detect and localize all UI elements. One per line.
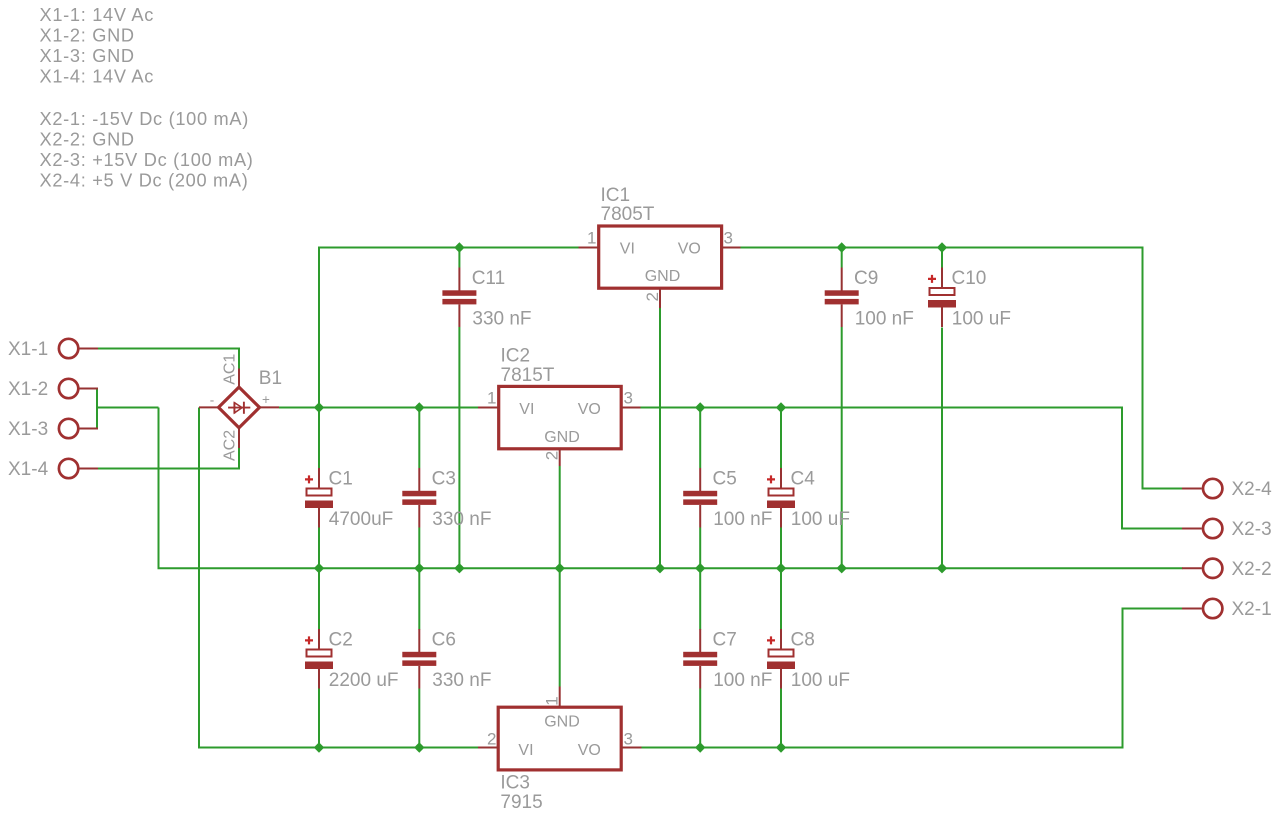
junction GND rail / C3-C6 column xyxy=(414,563,424,573)
capacitor C6 330 nF xyxy=(402,629,491,691)
svg-text:100 nF: 100 nF xyxy=(855,309,914,330)
svg-text:VO: VO xyxy=(678,241,701,258)
wire top rail left segment (raw DC to IC1 VI) xyxy=(318,247,579,249)
junction negative rail / C2 column xyxy=(314,742,324,752)
connector pin X2-1 xyxy=(1182,599,1272,620)
capacitor C10 100 uF (polarized) xyxy=(928,268,1011,330)
svg-text:X1-1: X1-1 xyxy=(8,339,48,360)
svg-text:IC3: IC3 xyxy=(500,772,530,793)
svg-text:X2-2: X2-2 xyxy=(1232,559,1272,580)
junction middle rail / C1 column xyxy=(314,402,324,412)
capacitor C4 100 uF (polarized) xyxy=(767,468,850,530)
wire C2 column bottom segment xyxy=(318,689,320,749)
wire X1-1 to bridge AC1 xyxy=(97,348,240,350)
svg-text:2200 uF: 2200 uF xyxy=(329,670,399,691)
svg-text:330 nF: 330 nF xyxy=(432,670,491,691)
svg-text:1: 1 xyxy=(487,389,496,408)
svg-text:-: - xyxy=(210,393,215,408)
svg-text:X2-3: +15V Dc (100 mA): X2-3: +15V Dc (100 mA) xyxy=(40,150,254,170)
svg-text:C8: C8 xyxy=(791,630,815,651)
svg-text:C10: C10 xyxy=(952,268,987,289)
capacitor C3 330 nF xyxy=(402,468,491,530)
svg-text:4700uF: 4700uF xyxy=(329,509,393,530)
svg-text:C5: C5 xyxy=(713,469,737,490)
svg-text:X1-2: GND: X1-2: GND xyxy=(40,26,135,46)
wire C9 column top segment xyxy=(841,247,843,268)
svg-text:X1-4: X1-4 xyxy=(8,459,49,480)
svg-text:AC2: AC2 xyxy=(222,430,239,461)
svg-text:3: 3 xyxy=(624,730,633,749)
wire bridge AC1 vertical drop xyxy=(238,348,240,370)
svg-text:X2-2: GND: X2-2: GND xyxy=(40,130,135,150)
svg-text:X2-4: X2-4 xyxy=(1232,479,1273,500)
connector pin X1-4 xyxy=(8,459,98,480)
svg-text:330 nF: 330 nF xyxy=(472,309,531,330)
svg-text:100 uF: 100 uF xyxy=(791,509,850,530)
svg-text:100 uF: 100 uF xyxy=(952,309,1011,330)
wire X2-4 feed vertical xyxy=(1142,247,1144,489)
capacitor C2 2200 uF (polarized) xyxy=(305,629,399,691)
junction GND rail / C10 column xyxy=(937,563,947,573)
svg-text:VO: VO xyxy=(578,401,601,418)
wire C1 column mid segment xyxy=(318,528,320,630)
svg-text:GND: GND xyxy=(544,713,580,730)
svg-text:7805T: 7805T xyxy=(601,204,655,225)
svg-text:C1: C1 xyxy=(329,469,353,490)
svg-text:C11: C11 xyxy=(472,268,505,289)
svg-text:X2-1: X2-1 xyxy=(1232,599,1272,620)
wire C4 column top segment xyxy=(780,407,782,469)
svg-text:+: + xyxy=(262,392,270,407)
wire C3 column top segment xyxy=(418,407,420,469)
wire GND feed vertical to GND rail xyxy=(158,408,160,569)
wire C5 column top segment xyxy=(699,407,701,469)
svg-text:2: 2 xyxy=(543,451,562,460)
wire X2-1 link horizontal xyxy=(1122,608,1183,610)
wire IC1 GND pin to GND rail xyxy=(659,308,661,568)
junction middle rail / C5 xyxy=(695,402,705,412)
wire C10 column top segment xyxy=(941,247,943,268)
svg-text:X1-3: X1-3 xyxy=(8,419,48,440)
wire middle rail left (bridge + to IC2 VI) xyxy=(279,407,478,409)
connector pin X2-3 xyxy=(1182,519,1272,540)
voltage regulator IC3 7915 xyxy=(478,687,642,814)
capacitor C1 4700uF (polarized) xyxy=(305,468,393,530)
wire C7 column bottom segment xyxy=(699,689,701,749)
wire X2-3 link horizontal xyxy=(1121,528,1183,530)
svg-text:X2-3: X2-3 xyxy=(1232,519,1272,540)
wire bridge minus feed vertical to negative rail xyxy=(198,408,200,748)
svg-text:1: 1 xyxy=(587,229,596,248)
svg-text:X2-1: -15V Dc (100 mA): X2-1: -15V Dc (100 mA) xyxy=(40,109,249,129)
svg-text:GND: GND xyxy=(645,268,681,285)
svg-text:X1-4: 14V Ac: X1-4: 14V Ac xyxy=(40,67,155,87)
junction top rail / C9 xyxy=(837,242,847,252)
junction GND rail / C9 column xyxy=(837,563,847,573)
wire C6 column bottom segment xyxy=(418,689,420,749)
svg-text:100 nF: 100 nF xyxy=(713,509,772,530)
svg-text:B1: B1 xyxy=(259,368,282,389)
wire raw DC main column x=318 upper xyxy=(318,247,320,469)
svg-text:VO: VO xyxy=(578,742,601,759)
wire X1-4 to bridge AC2 xyxy=(97,468,240,470)
wire C11 column to GND rail xyxy=(458,327,460,568)
svg-text:VI: VI xyxy=(518,742,533,759)
junction negative rail / C6 column xyxy=(414,742,424,752)
svg-text:AC1: AC1 xyxy=(222,354,239,385)
capacitor C8 100 uF (polarized) xyxy=(767,629,850,691)
svg-text:7915: 7915 xyxy=(500,792,542,813)
svg-text:C6: C6 xyxy=(432,630,456,651)
svg-text:100 nF: 100 nF xyxy=(713,670,772,691)
connector pin X2-2 xyxy=(1182,559,1272,580)
svg-text:330 nF: 330 nF xyxy=(432,509,491,530)
svg-text:C3: C3 xyxy=(432,469,456,490)
junction GND rail / C1-C2 column xyxy=(314,563,324,573)
wire middle rail right (IC2 VO to X2-3 corner) xyxy=(641,407,1123,409)
svg-text:C4: C4 xyxy=(791,469,816,490)
note: connector pinout annotation text xyxy=(40,5,254,191)
capacitor C11 330 nF xyxy=(442,268,531,330)
svg-text:C7: C7 xyxy=(713,630,737,651)
wire C10 column to GND rail xyxy=(941,328,943,569)
connector pin X1-3 xyxy=(8,419,98,440)
junction GND rail / C11 column xyxy=(454,563,464,573)
wire negative rail left (bridge - to IC3 VI) xyxy=(198,747,478,749)
wire C8 column bottom segment xyxy=(780,689,782,749)
junction GND rail / IC2-IC3 GND xyxy=(555,563,565,573)
svg-text:3: 3 xyxy=(724,229,733,248)
svg-text:C2: C2 xyxy=(329,630,353,651)
svg-text:2: 2 xyxy=(643,292,662,301)
wire C9 column to GND rail xyxy=(841,327,843,568)
svg-text:3: 3 xyxy=(624,389,633,408)
wire top rail right (IC1 VO to X2-4 corner) xyxy=(741,247,1143,249)
svg-text:7815T: 7815T xyxy=(501,365,555,386)
voltage regulator IC2 7815T xyxy=(478,346,641,467)
wire X2-3 feed vertical xyxy=(1121,407,1123,529)
wire C5/C7 column mid segment xyxy=(699,528,701,630)
svg-text:2: 2 xyxy=(487,730,496,749)
svg-text:X1-2: X1-2 xyxy=(8,379,48,400)
op-amp-style box: voltage regulator IC1 7805T xyxy=(579,185,741,308)
svg-text:VI: VI xyxy=(519,401,534,418)
junction negative rail / C7 column xyxy=(695,742,705,752)
bridge rectifier B1 xyxy=(199,354,282,461)
svg-text:X1-3: GND: X1-3: GND xyxy=(40,46,135,66)
junction top rail / C11 xyxy=(454,242,464,252)
wire IC2 GND pin to IC3 GND pin upper xyxy=(559,466,561,687)
junction GND rail / C5-C7 column xyxy=(695,563,705,573)
svg-text:IC2: IC2 xyxy=(501,346,531,367)
junction middle rail / C3 xyxy=(414,402,424,412)
capacitor C5 100 nF xyxy=(683,468,772,530)
svg-text:C9: C9 xyxy=(854,268,878,289)
wire X2-1 feed vertical xyxy=(1122,609,1124,749)
wire C3/C6 column mid segment xyxy=(418,528,420,630)
junction GND rail / C4-C8 column xyxy=(776,563,786,573)
svg-text:X1-1: 14V Ac: X1-1: 14V Ac xyxy=(40,5,155,25)
junction negative rail / C8 column xyxy=(776,742,786,752)
wire X1-2 stub join vertical xyxy=(96,389,98,429)
svg-text:IC1: IC1 xyxy=(601,185,631,206)
svg-text:100 uF: 100 uF xyxy=(791,670,850,691)
svg-text:X2-4: +5 V Dc (200 mA): X2-4: +5 V Dc (200 mA) xyxy=(40,171,249,191)
svg-text:1: 1 xyxy=(543,696,562,705)
wire negative rail right (IC3 VO to X2-1 corner) xyxy=(642,747,1123,749)
connector pin X2-4 xyxy=(1182,479,1272,500)
wire X1-2/X1-3 GND link horizontal xyxy=(97,407,159,409)
junction middle rail / C4 xyxy=(776,402,786,412)
connector pin X1-2 xyxy=(8,379,98,400)
junction GND rail / IC1 GND xyxy=(655,563,665,573)
wire bridge AC2 vertical rise xyxy=(238,448,240,470)
wire C4/C8 column mid segment xyxy=(780,528,782,630)
connector pin X1-1 xyxy=(8,339,98,360)
wire C11 column top segment xyxy=(458,247,460,268)
capacitor C7 100 nF xyxy=(683,629,772,691)
junction top rail / C10 xyxy=(937,242,947,252)
svg-text:VI: VI xyxy=(620,241,635,258)
wire GND rail horizontal xyxy=(158,567,1183,569)
wire X2-4 link horizontal xyxy=(1142,488,1183,490)
svg-text:GND: GND xyxy=(544,429,580,446)
capacitor C9 100 nF xyxy=(825,268,914,330)
